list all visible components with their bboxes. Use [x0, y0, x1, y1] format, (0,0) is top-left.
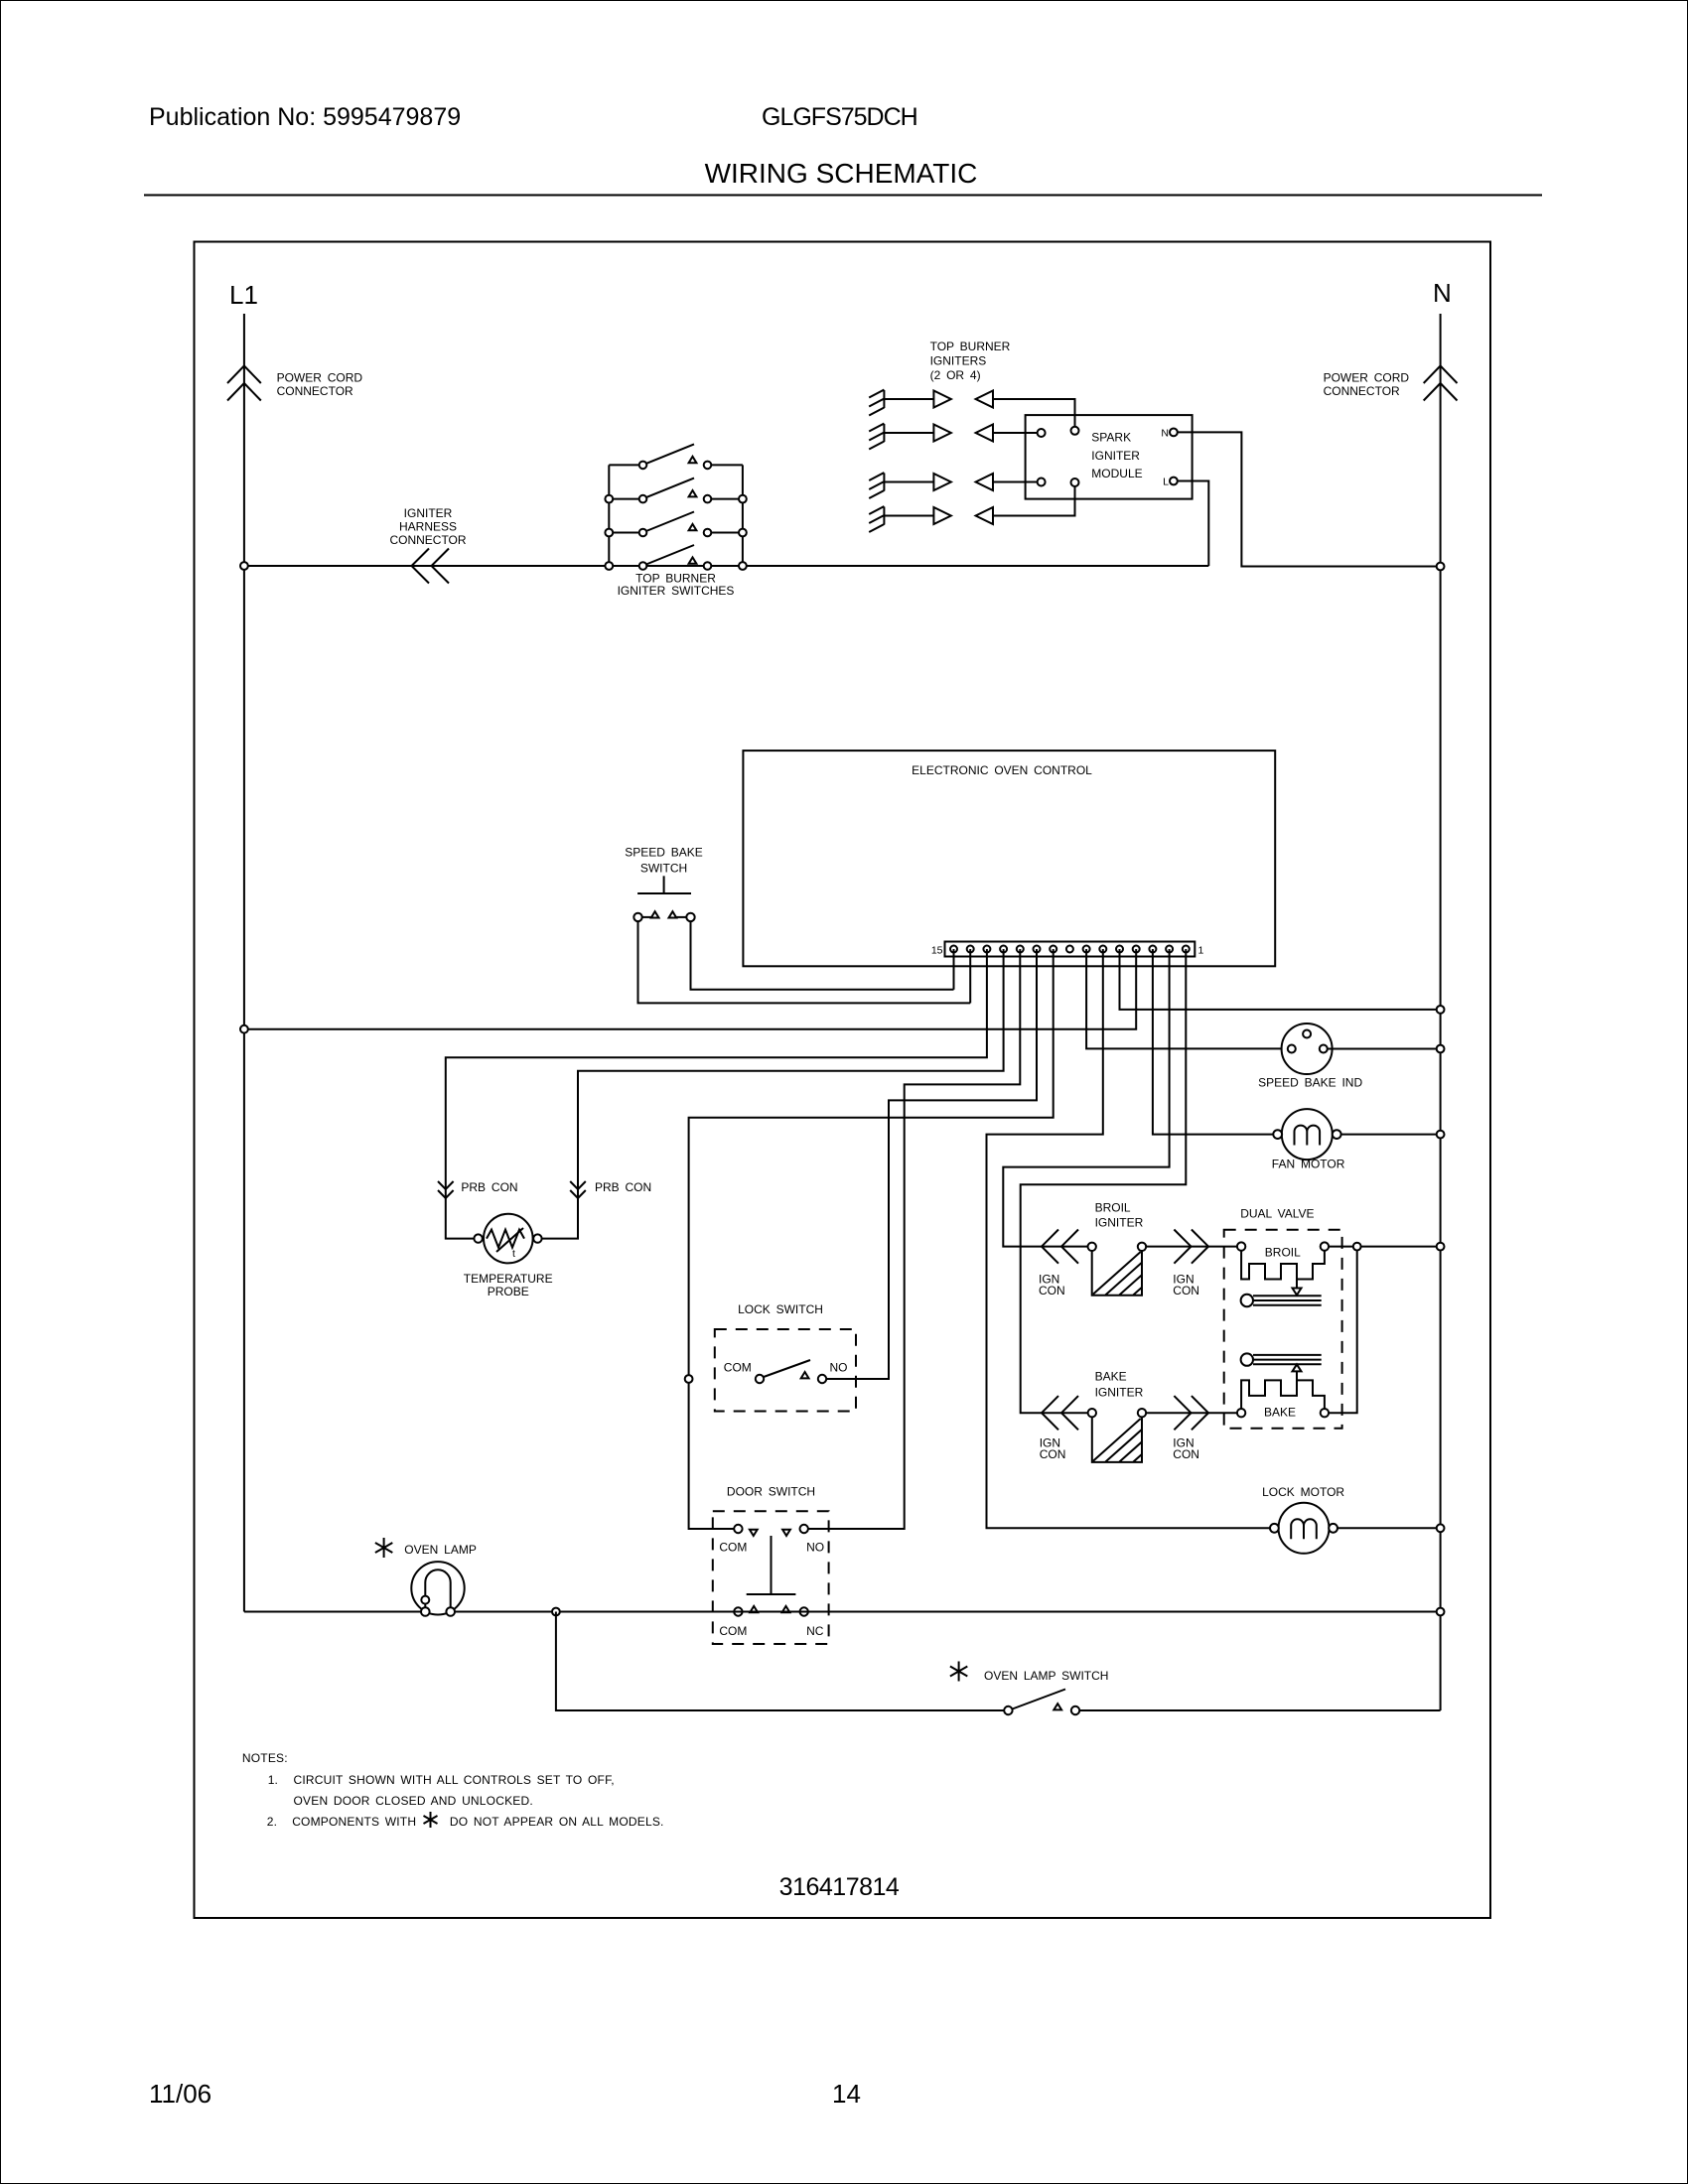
broil igniter IGN CON left chevron 2 [1061, 1230, 1078, 1264]
junction L1 bus / pin 4 wire [240, 1025, 248, 1033]
electronic oven control box [743, 751, 1275, 966]
svg-text:DOOR SWITCH: DOOR SWITCH [727, 1485, 815, 1499]
wire igniter 3 to arrow [884, 481, 933, 483]
speed bake ind left pin [1288, 1045, 1296, 1053]
broil igniter element [1092, 1251, 1142, 1296]
speed bake ind right pin [1320, 1045, 1328, 1053]
lock switch blade [764, 1360, 810, 1377]
svg-text:CON: CON [1173, 1447, 1199, 1461]
broil igniter right terminal [1138, 1243, 1146, 1251]
top burner igniter switch 1 contact arrow [689, 457, 697, 463]
top burner igniter switch 1 right contact [704, 462, 712, 470]
junction igniter switch right bus [739, 562, 747, 570]
wire broil igniter to dual valve [1146, 1246, 1237, 1248]
top burner igniter switch 1 right stub [712, 464, 743, 466]
svg-text:SPARK: SPARK [1091, 431, 1131, 445]
bake igniter element [1092, 1417, 1142, 1462]
top burner igniter switch 4 right stub [712, 565, 743, 567]
wire pin 1 to bake igniter [1021, 949, 1187, 1413]
wire pin 13 to PRB CON left [446, 949, 987, 1239]
wire pin 14 drop [969, 949, 971, 1003]
igniter 1 connector arrow left-pointing [976, 391, 993, 408]
temperature probe resistor zigzag [487, 1230, 524, 1248]
door switch dashed box [713, 1511, 829, 1644]
EOC pin 14 [967, 946, 974, 953]
bake valve gas outlet [1241, 1353, 1253, 1365]
svg-text:COM: COM [719, 1541, 747, 1555]
oven lamp filament horseshoe [425, 1570, 450, 1611]
svg-text:CONNECTOR: CONNECTOR [277, 384, 353, 398]
wire pin 12 to PRB CON right [541, 949, 1004, 1239]
junction igniter switch left bus [605, 495, 613, 503]
EOC pin 7 [1083, 946, 1090, 953]
wire igniter 4 to spark module inner pin [993, 486, 1075, 516]
broil valve arrow [1296, 1280, 1298, 1289]
svg-text:NC: NC [806, 1624, 824, 1638]
fan motor right terminal [1333, 1130, 1341, 1139]
door switch lower COM terminal [734, 1607, 742, 1615]
junction igniter switch right bus [739, 529, 747, 537]
oven lamp left terminal upper [421, 1596, 429, 1604]
igniter harness connector chevron 1 [412, 549, 430, 584]
temperature probe right terminal [533, 1234, 541, 1242]
svg-text:PRB CON: PRB CON [595, 1180, 651, 1194]
junction broil wire / bake valve wire [1353, 1243, 1361, 1251]
svg-text:N: N [1161, 428, 1169, 440]
power cord connector right chevron 2 [1424, 383, 1458, 401]
bake igniter left terminal [1088, 1409, 1096, 1417]
svg-text:BAKE: BAKE [1095, 1370, 1127, 1384]
dual valve bake right terminal [1321, 1409, 1329, 1417]
bake igniter IGN CON right chevron 2 [1192, 1396, 1208, 1430]
dual valve broil right terminal [1321, 1242, 1329, 1250]
oven lamp switch asterisk [950, 1662, 967, 1682]
EOC pin 9 [1050, 946, 1056, 953]
wire fan motor to N bus [1341, 1134, 1441, 1136]
svg-text:TOP BURNER: TOP BURNER [930, 340, 1011, 353]
wire bake valve to broil wire [1329, 1247, 1357, 1414]
speed bake switch contact arrow right [669, 911, 677, 917]
oven lamp asterisk [375, 1538, 392, 1558]
svg-text:1: 1 [1198, 945, 1204, 957]
wire pin 2 to broil igniter [1003, 949, 1169, 1247]
broil valve solenoid coil [1241, 1251, 1325, 1280]
oven lamp bulb [411, 1562, 464, 1614]
temperature probe body [484, 1214, 533, 1264]
svg-text:SPEED BAKE: SPEED BAKE [625, 846, 703, 860]
svg-text:HARNESS: HARNESS [399, 520, 457, 534]
lock switch contact arrow [801, 1372, 809, 1378]
svg-text:IGNITER: IGNITER [404, 506, 453, 520]
svg-text:FAN MOTOR: FAN MOTOR [1272, 1158, 1345, 1171]
door switch lower contact arrow right [782, 1606, 790, 1612]
svg-text:WIRING SCHEMATIC: WIRING SCHEMATIC [705, 158, 978, 189]
top burner igniter switch 3 right contact [704, 529, 712, 537]
lock motor left terminal [1270, 1524, 1279, 1533]
wire igniter 2 to arrow [884, 432, 933, 434]
oven lamp switch right terminal [1071, 1706, 1079, 1714]
svg-text:N: N [1433, 278, 1452, 308]
door switch lower NC terminal [800, 1607, 808, 1615]
igniter 3 connector arrow left-pointing [976, 474, 993, 490]
lock motor coil m [1291, 1519, 1317, 1539]
power cord connector right chevron 1 [1424, 366, 1458, 384]
note 2 asterisk [424, 1812, 438, 1828]
bake valve solenoid coil [1241, 1380, 1325, 1409]
fan motor coil m [1295, 1126, 1321, 1146]
schematic border frame [195, 242, 1491, 1919]
oven lamp left terminal [421, 1607, 430, 1616]
wire oven lamp switch to N bus corner [1079, 1709, 1440, 1711]
top burner igniter switch 2 contact arrow [689, 490, 697, 496]
door switch upper contact arrow right [782, 1530, 790, 1536]
bake igniter IGN CON left chevron 1 [1042, 1396, 1058, 1430]
svg-text:OVEN LAMP SWITCH: OVEN LAMP SWITCH [984, 1669, 1108, 1683]
svg-text:LOCK SWITCH: LOCK SWITCH [738, 1302, 823, 1316]
svg-text:14: 14 [832, 2079, 861, 2109]
top burner igniter switch 4 contact arrow [689, 557, 697, 563]
top burner igniter switch 2 left contact [639, 495, 647, 503]
speed bake indicator body [1282, 1024, 1333, 1074]
speed bake switch plunger [637, 876, 691, 893]
wire pin 3 to fan motor [1153, 949, 1278, 1135]
spark module inner pin upper [1071, 427, 1079, 435]
top burner igniter switch 2 left stub [609, 498, 638, 500]
power cord connector left chevron 1 [227, 366, 261, 384]
top burner igniter 3 electrode [869, 473, 884, 498]
top burner igniter switch 4 left contact [639, 562, 647, 570]
igniter 4 connector arrow left-pointing [976, 507, 993, 524]
wire igniter 1 to spark module top pin [993, 399, 1075, 427]
svg-text:SPEED BAKE IND: SPEED BAKE IND [1258, 1076, 1362, 1090]
top burner igniter switch 2 right stub [712, 498, 743, 500]
top burner igniter switch 2 blade [646, 478, 694, 498]
door switch actuator [747, 1536, 796, 1594]
broil igniter left terminal [1088, 1243, 1096, 1251]
svg-text:11/06: 11/06 [149, 2079, 211, 2109]
svg-text:BAKE: BAKE [1264, 1405, 1296, 1419]
igniter 2 connector arrow right-pointing [933, 425, 950, 442]
EOC pin 12 [1000, 946, 1007, 953]
title underline rule [144, 195, 1542, 197]
EOC pin 15 [950, 946, 957, 953]
EOC pin connector strip [945, 942, 1196, 957]
EOC pin 8 [1066, 946, 1073, 953]
power cord connector left chevron 2 [227, 383, 261, 401]
svg-text:GLGFS75DCH: GLGFS75DCH [762, 103, 917, 131]
junction N bus / bottom main wire [1437, 1608, 1445, 1616]
speed bake switch contact arrow left [651, 911, 659, 917]
wire pin 11 to door switch NO [808, 949, 1020, 1529]
oven lamp right terminal [446, 1607, 455, 1616]
top burner igniter switch 3 left contact [639, 529, 647, 537]
svg-text:CON: CON [1173, 1284, 1199, 1297]
fan motor left terminal [1273, 1130, 1282, 1139]
dual valve broil left terminal [1237, 1242, 1245, 1250]
wire pin 10 to lock switch NO [826, 949, 1037, 1379]
svg-text:LOCK MOTOR: LOCK MOTOR [1262, 1485, 1344, 1499]
EOC pin 6 [1099, 946, 1106, 953]
svg-text:15: 15 [931, 945, 943, 957]
PRB CON left chevron 1 [438, 1181, 454, 1189]
wire igniter 2 to spark module pin [993, 432, 1037, 434]
svg-text:COM: COM [724, 1361, 752, 1375]
EOC pin 11 [1017, 946, 1024, 953]
broil igniter IGN CON right chevron 1 [1174, 1230, 1191, 1264]
igniter harness connector chevron 2 [432, 549, 450, 584]
PRB CON right chevron 2 [570, 1190, 586, 1198]
spark igniter module box [1026, 415, 1193, 499]
svg-text:IGNITER: IGNITER [1095, 1386, 1144, 1400]
wire pin 15 drop [953, 949, 955, 990]
lock motor right terminal [1329, 1524, 1337, 1533]
top burner igniter switch 3 blade [646, 512, 694, 532]
wire lock motor to N bus [1337, 1527, 1441, 1529]
svg-text:NO: NO [830, 1361, 848, 1375]
svg-text:POWER CORD: POWER CORD [1324, 371, 1410, 385]
bake igniter IGN CON right chevron 1 [1174, 1396, 1191, 1430]
svg-text:OVEN LAMP: OVEN LAMP [404, 1543, 477, 1557]
door switch upper COM terminal [734, 1525, 742, 1533]
top burner igniter switch 1 blade [646, 444, 694, 464]
wire igniter 3 to spark module pin [993, 481, 1037, 483]
temperature probe arrow stroke [496, 1228, 523, 1252]
wire speed bake switch to pin 14 [638, 921, 971, 1003]
svg-text:BROIL: BROIL [1265, 1246, 1301, 1260]
junction N bus / speed bake ind [1437, 1045, 1445, 1053]
broil valve gas outlet [1241, 1295, 1253, 1306]
speed bake switch left contact stub [642, 916, 651, 918]
door switch lower contact arrow left [750, 1606, 758, 1612]
junction bottom wire / lamp switch drop [552, 1608, 560, 1616]
lock switch dashed box [715, 1329, 856, 1412]
wire pin 7 to speed bake ind [1086, 949, 1288, 1048]
dual valve bake left terminal [1237, 1409, 1245, 1417]
svg-text:COM: COM [719, 1624, 747, 1638]
wire pin 4 to L1 bus [244, 949, 1136, 1029]
junction L1 bus / main wire [240, 562, 248, 570]
lock switch COM terminal [756, 1375, 764, 1383]
top burner igniter 1 electrode [869, 390, 884, 416]
svg-text:(2 OR 4): (2 OR 4) [930, 368, 981, 382]
wire bottom main run L1 to N [244, 1611, 1441, 1613]
junction N bus / lock motor [1437, 1524, 1445, 1532]
lock switch COM stub [756, 1378, 760, 1380]
svg-text:L: L [1163, 477, 1169, 488]
speed bake switch right terminal [686, 913, 694, 921]
wire speed bake ind to N bus [1328, 1048, 1441, 1050]
wire igniter 4 to arrow [884, 515, 933, 517]
svg-text:Publication No: 5995479879: Publication No: 5995479879 [149, 103, 461, 131]
svg-text:COMPONENTS WITH: COMPONENTS WITH [292, 1815, 416, 1829]
wire igniter switch right bus [742, 465, 744, 566]
top burner igniter switch 3 contact arrow [689, 524, 697, 530]
top burner igniter switch 2 right contact [704, 495, 712, 503]
wire L1 main horizontal run [244, 565, 1208, 567]
svg-text:SWITCH: SWITCH [640, 862, 687, 876]
igniter 4 connector arrow right-pointing [933, 507, 950, 524]
wire igniter 1 to arrow [884, 398, 933, 400]
igniter 3 connector arrow right-pointing [933, 474, 950, 490]
svg-text:DUAL VALVE: DUAL VALVE [1240, 1206, 1314, 1220]
svg-text:NO: NO [806, 1541, 824, 1555]
temperature probe left terminal [474, 1234, 482, 1242]
wire to oven lamp switch [556, 1612, 1004, 1711]
svg-text:316417814: 316417814 [779, 1873, 900, 1901]
top burner igniter 2 electrode [869, 424, 884, 450]
wire pin 6 to lock motor [987, 949, 1271, 1528]
svg-text:CON: CON [1039, 1284, 1065, 1297]
svg-text:PRB CON: PRB CON [461, 1180, 517, 1194]
EOC pin 1 [1183, 946, 1190, 953]
wire N bus vertical [1440, 314, 1442, 1710]
top burner igniter switch 4 right contact [704, 562, 712, 570]
broil igniter IGN CON left chevron 1 [1042, 1230, 1058, 1264]
broil igniter IGN CON right chevron 2 [1192, 1230, 1208, 1264]
fan motor body [1282, 1109, 1333, 1160]
top burner igniter switch 1 left contact [639, 462, 647, 470]
junction igniter switch left bus [605, 562, 613, 570]
junction N bus / pin 5 wire [1437, 1006, 1445, 1014]
spark module pin L [1170, 478, 1178, 485]
wire bake igniter to dual valve [1146, 1412, 1237, 1414]
svg-text:ELECTRONIC OVEN CONTROL: ELECTRONIC OVEN CONTROL [912, 763, 1092, 777]
svg-text:CON: CON [1040, 1447, 1066, 1461]
EOC pin 5 [1116, 946, 1123, 953]
wire broil valve to N bus [1329, 1246, 1440, 1248]
junction pin9 wire / lock switch COM [685, 1375, 693, 1383]
EOC pin 13 [983, 946, 990, 953]
spark module inner pin lower [1071, 478, 1079, 486]
svg-text:MODULE: MODULE [1091, 467, 1142, 480]
junction igniter switch left bus [605, 529, 613, 537]
spark module left pin lower [1038, 478, 1046, 486]
wire pin 5 to N bus [1120, 949, 1441, 1010]
wire speed bake switch to pin 15 [691, 921, 954, 990]
svg-text:L1: L1 [229, 280, 258, 310]
door switch upper contact arrow left [750, 1530, 758, 1536]
svg-text:DO NOT APPEAR ON ALL MODELS.: DO NOT APPEAR ON ALL MODELS. [450, 1815, 664, 1829]
wire spark module N to N bus [1178, 432, 1440, 566]
svg-text:CONNECTOR: CONNECTOR [389, 533, 466, 547]
top burner igniter switch 4 blade [646, 545, 694, 565]
speed bake switch left terminal [633, 913, 641, 921]
bake igniter IGN CON left chevron 2 [1061, 1396, 1078, 1430]
svg-text:POWER CORD: POWER CORD [277, 371, 363, 385]
wire pin 9 to lock/door switch COM [689, 949, 1054, 1529]
svg-text:CIRCUIT SHOWN WITH ALL CONTROL: CIRCUIT SHOWN WITH ALL CONTROLS SET TO O… [294, 1773, 615, 1787]
svg-text:PROBE: PROBE [488, 1285, 529, 1298]
svg-text:TEMPERATURE: TEMPERATURE [464, 1272, 553, 1286]
oven lamp switch contact arrow [1054, 1704, 1061, 1709]
igniter 2 connector arrow left-pointing [976, 425, 993, 442]
EOC pin 3 [1149, 946, 1156, 953]
speed bake switch right contact stub [676, 916, 686, 918]
svg-text:t: t [512, 1248, 515, 1260]
door switch upper NO terminal [800, 1525, 808, 1533]
svg-text:IGNITER: IGNITER [1091, 449, 1140, 463]
junction N bus / fan motor [1437, 1131, 1445, 1139]
top burner igniter switch 3 right stub [712, 532, 743, 534]
top burner igniter 4 electrode [869, 506, 884, 532]
PRB CON right chevron 1 [570, 1181, 586, 1189]
svg-text:IGNITER SWITCHES: IGNITER SWITCHES [618, 584, 735, 598]
EOC pin 10 [1034, 946, 1041, 953]
bake igniter right terminal [1138, 1409, 1146, 1417]
igniter 1 connector arrow right-pointing [933, 391, 950, 408]
junction igniter switch right bus [739, 495, 747, 503]
svg-text:BROIL: BROIL [1095, 1201, 1131, 1215]
svg-text:IGNITERS: IGNITERS [930, 354, 987, 368]
dual valve dashed box [1224, 1230, 1342, 1429]
oven lamp switch blade [1013, 1690, 1066, 1709]
spark module left pin upper [1038, 429, 1046, 437]
top burner igniter switch 1 left stub [609, 464, 638, 466]
wire igniter switch left bus [608, 465, 610, 566]
svg-text:2.: 2. [267, 1815, 277, 1829]
svg-text:1.: 1. [268, 1773, 278, 1787]
speed bake ind top pin [1303, 1030, 1311, 1038]
svg-text:CONNECTOR: CONNECTOR [1324, 384, 1400, 398]
bake valve arrow [1296, 1371, 1298, 1380]
EOC pin 4 [1133, 946, 1140, 953]
wire L1 bus vertical [243, 314, 245, 1612]
junction N bus / spark module N wire [1437, 563, 1445, 571]
oven lamp switch left terminal [1004, 1706, 1012, 1714]
svg-text:IGNITER: IGNITER [1095, 1216, 1144, 1230]
top burner igniter switch 4 left stub [609, 565, 638, 567]
lock switch NO terminal [818, 1375, 826, 1383]
PRB CON left chevron 2 [438, 1190, 454, 1198]
svg-text:OVEN DOOR CLOSED AND UNLOCKED.: OVEN DOOR CLOSED AND UNLOCKED. [294, 1794, 533, 1808]
junction N bus / broil valve wire [1437, 1243, 1445, 1251]
top burner igniter switch 3 left stub [609, 532, 638, 534]
EOC pin 2 [1166, 946, 1173, 953]
wire spark module L to main wire [1178, 481, 1208, 567]
svg-text:NOTES:: NOTES: [242, 1751, 288, 1765]
lock motor body [1279, 1503, 1330, 1554]
spark module pin N [1170, 429, 1178, 437]
